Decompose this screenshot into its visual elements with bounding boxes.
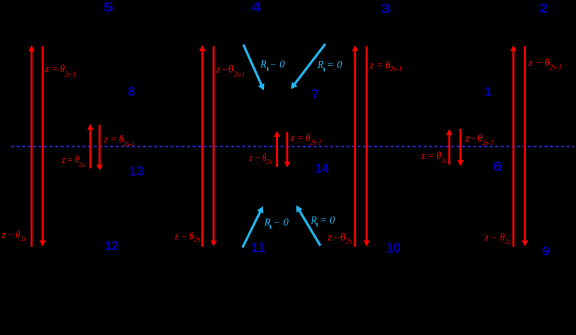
svg-text:2s: 2s: [20, 235, 26, 243]
svg-text:2s-1: 2s-1: [310, 140, 322, 147]
svg-text:11: 11: [251, 240, 265, 255]
svg-text:2s-1: 2s-1: [550, 65, 562, 72]
svg-text:4: 4: [251, 1, 261, 15]
svg-text:2s: 2s: [441, 157, 447, 165]
svg-text:− 0: − 0: [273, 218, 288, 229]
svg-text:R: R: [317, 60, 324, 71]
svg-text:12: 12: [105, 238, 119, 253]
svg-text:z = θ: z = θ: [290, 133, 311, 144]
svg-text:8: 8: [128, 85, 135, 99]
svg-text:13: 13: [129, 163, 143, 178]
svg-text:1: 1: [485, 85, 492, 99]
svg-text:2: 2: [539, 1, 548, 15]
svg-text:14: 14: [315, 160, 329, 175]
svg-text:2s: 2s: [194, 235, 201, 243]
svg-text:z = θ: z = θ: [44, 64, 65, 75]
svg-text:2s-1: 2s-1: [123, 141, 135, 148]
svg-text:z − θ: z − θ: [174, 232, 194, 243]
svg-text:10: 10: [386, 240, 401, 255]
svg-text:2s: 2s: [266, 158, 272, 166]
svg-text:z−θ: z−θ: [464, 134, 482, 145]
svg-text:2s-1: 2s-1: [233, 71, 245, 78]
svg-text:z = θ: z = θ: [61, 155, 79, 166]
svg-text:5: 5: [103, 1, 113, 15]
svg-text:z = θ: z = θ: [420, 151, 441, 162]
svg-text:2s: 2s: [346, 238, 352, 246]
svg-text:z−θ: z−θ: [326, 232, 346, 243]
svg-text:z − θ: z − θ: [1, 230, 20, 241]
svg-text:= 0: = 0: [320, 215, 335, 226]
svg-text:2s-1: 2s-1: [482, 140, 493, 147]
svg-text:z−θ: z−θ: [215, 64, 234, 75]
svg-text:R: R: [259, 60, 266, 71]
svg-text:2s-1: 2s-1: [390, 66, 402, 73]
svg-text:z − θ: z − θ: [248, 153, 266, 164]
svg-text:2s-1: 2s-1: [65, 71, 76, 78]
svg-text:2s: 2s: [505, 238, 511, 246]
svg-text:R: R: [310, 215, 317, 226]
svg-text:3: 3: [381, 2, 392, 16]
svg-text:− 0: − 0: [270, 60, 285, 71]
svg-text:6: 6: [493, 159, 503, 174]
svg-text:z − θ: z − θ: [484, 232, 505, 243]
svg-text:9: 9: [542, 244, 550, 259]
svg-text:R: R: [263, 218, 270, 229]
svg-text:= 0: = 0: [327, 60, 342, 71]
svg-text:z = θ: z = θ: [369, 60, 390, 71]
svg-text:z − θ: z − θ: [527, 58, 549, 69]
svg-text:7: 7: [312, 88, 319, 102]
svg-text:z = θ: z = θ: [103, 134, 123, 145]
svg-text:2s: 2s: [79, 161, 86, 169]
